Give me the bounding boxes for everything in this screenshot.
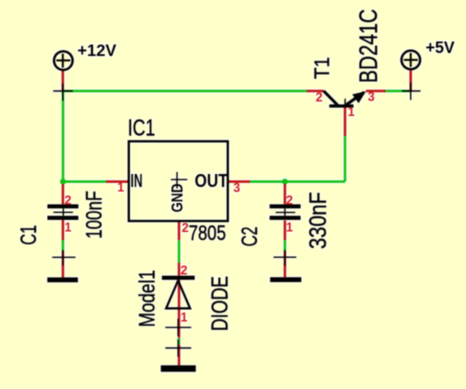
svg-text:7805: 7805 [189,222,226,245]
svg-text:GND: GND [170,183,187,212]
svg-text:DIODE: DIODE [207,276,233,331]
svg-text:2: 2 [181,264,188,278]
svg-text:1: 1 [181,311,188,325]
svg-text:2: 2 [182,221,189,235]
svg-text:1: 1 [65,220,72,234]
svg-text:3: 3 [368,90,375,104]
power supply symbol +12V [53,51,73,101]
wire C1 to GND1 [62,240,65,251]
wire N$1 top rail horizontal [63,90,307,93]
diode Model1 DIODE [162,263,195,338]
IC IC1 7805 regulator body [106,141,250,240]
svg-text:C1: C1 [16,225,41,245]
node junction OUT / C2 [282,179,288,185]
transistor T1 BD241C [307,91,386,136]
wire OUT net horizontal [250,180,345,183]
svg-text:+12V: +12V [77,41,117,60]
ground GND3 at diode [161,340,196,372]
wire T1 pin3 to +5V [384,90,411,93]
svg-text:330nF: 330nF [305,192,332,249]
svg-text:+5V: +5V [426,38,456,57]
svg-text:1: 1 [286,221,293,235]
svg-text:T1: T1 [310,57,334,79]
svg-text:IC1: IC1 [128,115,156,141]
ground GND1 at C1 [47,250,78,282]
capacitor C2 [270,184,301,240]
svg-text:IN: IN [131,171,143,191]
svg-text:C2: C2 [237,227,262,247]
svg-text:2: 2 [316,91,323,105]
power supply symbol +5V [402,51,421,100]
svg-text:2: 2 [286,194,293,208]
ground GND2 at C2 [270,250,301,282]
svg-text:3: 3 [233,181,240,195]
wire IC1 GND to diode [178,240,181,263]
svg-text:1: 1 [348,105,355,119]
svg-text:OUT: OUT [195,171,228,191]
svg-text:2: 2 [65,193,72,207]
capacitor C1 [47,184,78,240]
svg-text:1: 1 [117,180,124,194]
wire N$1 node to IC1 IN [63,180,106,183]
wire diode to GND3 [178,338,181,345]
svg-text:BD241C: BD241C [355,9,383,83]
svg-text:100nF: 100nF [82,191,107,239]
wire N$1 left vertical [62,91,65,182]
wire C2 to GND2 [284,240,287,251]
wire OUT net vertical to T1 base [344,136,347,182]
node junction N$1 / C1 [60,179,66,185]
svg-text:Model1: Model1 [135,270,160,327]
